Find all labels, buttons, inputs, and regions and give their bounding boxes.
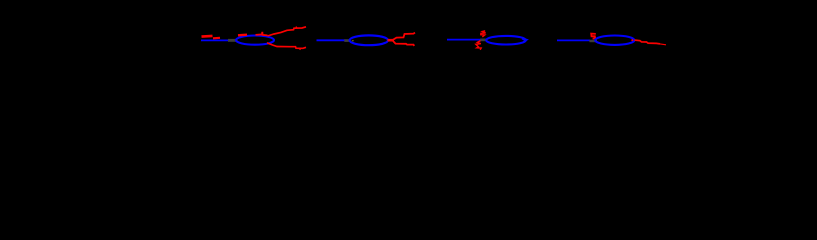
molecule 1 gray marker [228,39,236,42]
molecule 1 red upper branch tick [295,27,297,29]
molecule 4 red tail thin end [660,43,666,46]
molecule 1 red lower branch tick [299,48,302,50]
molecule 2 red upper fork [393,33,415,40]
molecule 4 gray marker [589,40,597,43]
molecule 1 red marks ring top-center [256,32,268,36]
molecule 4 red squiggle [591,34,596,39]
molecule 3 red lower squiggle [476,41,481,50]
molecule 1 red dash on ring top-left [238,34,247,37]
molecule 2 olive dot [352,40,354,42]
molecule 3 gray marker [480,39,486,42]
molecule 1 olive dot [236,40,238,42]
molecule 3 red upper squiggle [481,31,486,37]
molecule 3 ring right-tip wiggle [522,39,527,42]
molecule 2 blue ring [350,35,388,45]
molecule 1 red dash a [202,35,213,38]
molecule 4 blue ring [595,36,634,45]
molecule 4 red dot on ring tip [631,39,633,41]
molecule 1 blue tail wire [201,39,234,41]
molecule 1 blue ring [236,36,274,45]
molecule 2 red stub [388,39,395,42]
molecule 1 red dash b [213,37,220,40]
molecule 4 red tail [635,40,661,44]
molecule 3 blue tail wire [447,39,482,41]
molecule 2 gray marker [344,39,350,42]
molecule 4 blue tail wire [557,39,590,41]
molecule 2 blue tail wire [317,39,346,41]
molecule 2 red lower fork [393,41,414,46]
molecule 1 red upper branch [268,27,307,36]
molecule 3 blue ring [486,36,526,45]
molecule 1 red lower branch [267,43,306,49]
